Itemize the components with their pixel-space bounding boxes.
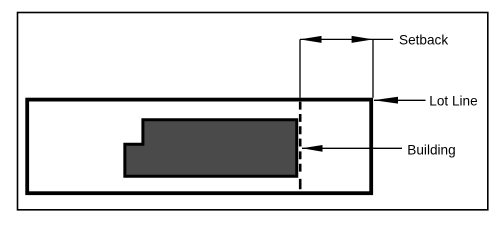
svg-text:Lot Line: Lot Line (429, 93, 477, 108)
building arrowhead (302, 145, 323, 152)
lot line rectangle (27, 100, 371, 194)
dimension arrowhead left (300, 36, 322, 43)
lot line leader (374, 99, 426, 101)
building leader (302, 147, 402, 149)
left extension line (299, 39, 301, 97)
svg-text:Building: Building (407, 143, 455, 158)
svg-text:Setback: Setback (399, 32, 448, 47)
setback dashed line (299, 102, 302, 190)
lot line arrowhead (374, 97, 398, 104)
building footprint (125, 120, 297, 176)
outer border frame (18, 13, 488, 210)
dimension line (300, 38, 393, 40)
right extension line (372, 39, 374, 97)
dimension arrowhead right (352, 36, 373, 43)
